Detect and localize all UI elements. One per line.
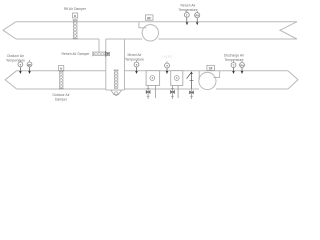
return air temperature label <box>178 3 197 12</box>
svg-text:Discharge Air: Discharge Air <box>224 54 245 58</box>
svg-text:Mixed Air: Mixed Air <box>128 53 143 57</box>
outdoor air temperature label <box>6 54 25 63</box>
supply fan SF scroll <box>199 71 220 90</box>
cooling coil pipes <box>148 86 155 100</box>
mixed air damper (in plenum) <box>114 70 119 88</box>
coil discharge sensor <box>162 55 173 75</box>
svg-text:RH: RH <box>195 15 199 18</box>
return/relief duct (top) outline <box>3 22 297 39</box>
humidifier valve <box>189 91 193 97</box>
svg-text:Return Air: Return Air <box>180 3 196 7</box>
svg-text:Rlf Air Damper: Rlf Air Damper <box>64 7 87 11</box>
svg-text:T: T <box>186 13 188 17</box>
mixing plenum walls <box>99 39 125 90</box>
svg-text:RH: RH <box>240 64 244 67</box>
outdoor air damper <box>59 71 64 89</box>
return air damper (horizontal, in plenum throat) <box>93 51 106 57</box>
svg-text:Lvg Air: Lvg Air <box>162 55 173 59</box>
return air humidity sensor RH <box>195 11 200 25</box>
supply fan status box <box>207 65 215 70</box>
heating coil box <box>171 71 183 86</box>
svg-text:Temperature: Temperature <box>224 58 243 62</box>
svg-text:T: T <box>136 63 138 67</box>
mixed/supply duct (bottom) outline <box>5 71 298 89</box>
heating coil valve <box>170 89 174 97</box>
cooling coil valve <box>146 89 150 97</box>
return air damper actuator box <box>106 52 109 55</box>
svg-text:SF: SF <box>209 66 213 70</box>
return fan RF scroll <box>139 22 159 41</box>
svg-text:Temperature: Temperature <box>125 58 144 62</box>
return fan status box <box>145 15 153 20</box>
outdoor air humidity sensor RH <box>27 60 32 74</box>
svg-text:Damper: Damper <box>55 98 68 102</box>
mixed air damper actuator bracket <box>111 90 121 95</box>
svg-text:Temperature: Temperature <box>6 59 25 63</box>
discharge air humidity sensor RH <box>240 61 245 75</box>
outdoor air temp sensor T <box>18 60 23 74</box>
outdoor air damper actuator box <box>59 66 64 71</box>
return air temp sensor T <box>184 10 189 25</box>
svg-text:Outdoor Air: Outdoor Air <box>52 93 70 97</box>
cooling coil box <box>146 71 160 86</box>
svg-text:T: T <box>233 64 235 68</box>
mixed air temp sensor T <box>134 60 139 74</box>
svg-text:RF: RF <box>147 16 151 20</box>
svg-text:Outdoor Air: Outdoor Air <box>7 54 25 58</box>
mixed air temperature label <box>125 53 144 62</box>
relief damper actuator box <box>73 13 78 18</box>
svg-text:T: T <box>166 64 168 68</box>
svg-text:Temperature: Temperature <box>178 8 197 12</box>
humidifier steam lance <box>187 71 194 99</box>
heating coil pipes <box>173 86 179 100</box>
discharge air temp sensor T <box>231 61 236 74</box>
svg-text:RH: RH <box>28 64 32 67</box>
relief air damper Rlf <box>73 20 78 39</box>
outdoor air damper label <box>52 93 70 102</box>
discharge air temperature label <box>224 54 245 63</box>
svg-text:Return Air Damper: Return Air Damper <box>61 52 90 56</box>
svg-text:T: T <box>19 63 21 67</box>
